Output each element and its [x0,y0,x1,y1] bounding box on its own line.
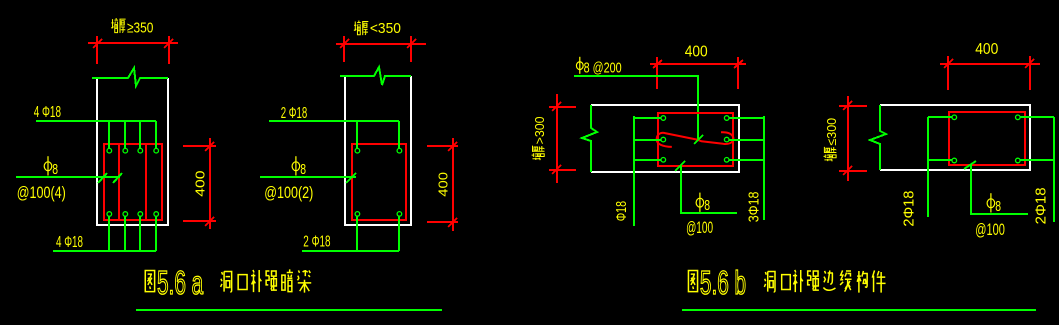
fig3 top leader phi8@200 [574,76,698,140]
fig3 left bar leader lines [634,116,661,226]
fig4 right bar leader lines [1020,117,1054,222]
fig3 label 3phi18 (rotated, right) [746,192,763,223]
fig3 center tick (green) [694,135,703,144]
svg-text:8: 8 [300,161,306,178]
svg-text:≥350: ≥350 [127,20,153,37]
fig1 middle leader line with two ticks [16,173,122,183]
fig3 stirrup (red) [658,113,733,166]
fig4 bar dots [952,115,1020,163]
fig3 label phi18 (rotated, left) [613,201,630,221]
fig2 dim tick left [340,39,349,48]
fig3 label 墙厚>300 (rotated) [532,116,548,160]
fig2 longitudinal bars (green verticals, 2 top + 2 bottom) [357,121,399,251]
fig2 bottom leader line [302,250,399,252]
fig4 wall section (white) [880,105,1030,170]
fig3 bar dots left column [661,116,666,162]
fig2 break line (green) at wall top [340,67,411,85]
svg-text:400: 400 [435,172,450,197]
fig2 bar dots bottom row [355,212,402,217]
fig1 right dimension 400 [183,138,216,229]
fig3 bar dots right column [724,116,729,162]
fig2 bar dots top row [355,148,402,153]
fig4 left dimension (wall thickness) [839,96,867,181]
fig4 stirrup label leader (L shape) [971,165,1028,214]
fig2 wall section (white) [345,76,411,225]
svg-text:400: 400 [193,171,208,197]
fig2 label phi8 [292,156,300,175]
fig4 label 2phi18 (rotated, right) [1032,187,1049,224]
svg-text:4 Φ18: 4 Φ18 [34,104,61,121]
fig2 top leader line [269,120,399,122]
svg-text:2 Φ18: 2 Φ18 [281,105,308,122]
fig3 bottom tick (green) [675,161,685,171]
svg-text:Φ18: Φ18 [613,201,630,221]
fig1 break line (green) at wall top [92,68,168,86]
fig1 dim tick right [164,39,173,48]
svg-text:4 Φ18: 4 Φ18 [56,234,83,251]
fig4 bottom tick (green) [964,161,976,169]
fig1 dim tick left [93,39,102,48]
fig1 longitudinal bars (green verticals, 4 top + 4 bottom) [109,121,156,251]
svg-text:3Φ18: 3Φ18 [746,192,763,223]
fig2 middle leader line with tick [260,173,356,183]
fig1 label phi8 [44,156,52,175]
fig1 dim text 400 (rotated) [193,171,208,197]
fig3 crosstie (red S-curve) [657,132,734,147]
caption a: 图5.6a 洞口补强暗梁 [145,264,311,301]
svg-text:400: 400 [685,43,708,60]
svg-text:8: 8 [52,161,58,178]
fig2 right dimension 400 [427,138,458,231]
svg-text:8: 8 [704,197,710,214]
svg-text:400: 400 [975,41,998,58]
fig1 dimension line (wall thickness) [88,36,178,64]
fig2 dim tick right [407,39,416,48]
fig3 break line (green) at wall left [582,105,597,172]
fig1 label 墙厚≥350 [111,18,153,37]
svg-text:≤300: ≤300 [824,118,839,146]
svg-text:@100: @100 [975,221,1005,239]
fig4 label 墙厚≤300 (rotated) [824,118,840,161]
fig2 stirrup (red) [352,144,406,220]
fig1 top leader line [36,120,156,122]
svg-text:<350: <350 [370,20,401,37]
fig2 dimension line (wall thickness) [336,36,426,62]
fig3 top dimension 400 [650,57,746,89]
fig3 label phi8@200 [576,57,583,74]
caption b: 图5.6b 洞口补强边缘构件 [688,264,885,301]
fig4 left bar leader lines [928,117,952,217]
fig3 label phi8 [696,193,704,212]
fig4 stirrup (red) [949,112,1025,165]
fig3 left dimension (wall thickness) [549,94,576,183]
fig3 right bar leader lines [729,116,764,220]
svg-text:@100(4): @100(4) [17,184,66,202]
svg-text:2 Φ18: 2 Φ18 [303,234,330,251]
svg-text:@100(2): @100(2) [264,184,313,202]
svg-text:5.6 b: 5.6 b [700,264,746,301]
fig4 label 2phi18 (rotated, left) [901,191,918,227]
fig2 dim text 400 (rotated) [435,172,450,197]
svg-text:@100: @100 [686,219,713,237]
svg-text:>300: >300 [532,116,547,144]
fig3 wall section (white) [591,105,739,172]
fig1 bar dots top row [107,148,159,153]
fig1 wall section (white) [97,78,168,225]
caption b underline (green) [682,309,1036,311]
fig2 label 墙厚<350 [354,20,401,37]
svg-text:8 @200: 8 @200 [584,59,622,76]
fig3 stirrup label leader (L shape) [681,166,737,213]
fig1 stirrup (red) with two interior legs [104,144,162,220]
svg-text:8: 8 [995,198,1001,215]
fig1 bar dots bottom row [107,212,159,217]
svg-text:2Φ18: 2Φ18 [1032,187,1049,224]
svg-text:2Φ18: 2Φ18 [901,191,918,227]
fig4 top dimension 400 [940,56,1040,90]
caption a underline (green) [136,309,442,311]
svg-text:5.6 a: 5.6 a [157,264,204,301]
fig4 label phi8 [987,193,995,212]
fig1 bottom leader line [53,250,156,252]
fig4 break line (green) at wall left [870,105,886,170]
